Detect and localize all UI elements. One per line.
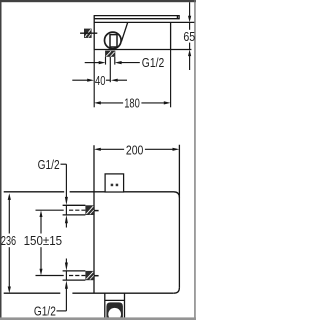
bottom view: leader shaft crossing top pipe [65, 205, 67, 215]
bottom view: top pipe stub inside body [94, 210, 99, 212]
bottom view: bottom pipe edges [63, 271, 86, 280]
bottom view: control square dot 2 [116, 184, 119, 187]
bottom view: top pipe hatched square [85, 205, 94, 215]
top view: bottom connection hatched rect [105, 51, 115, 57]
bottom view: spout outlet dark block [106, 302, 123, 317]
bottom view: spout inner ledge line [105, 299, 125, 301]
bottom view: leader shaft crossing bottom pipe [65, 271, 67, 280]
bottom view: body bottom edge (right of leader gap) [72, 292, 173, 294]
top view: body right edge [170, 22, 172, 49]
svg-text:G1/2: G1/2 [38, 157, 60, 172]
svg-text:236: 236 [1, 233, 16, 248]
bottom view: body bottom right rounded corner [174, 288, 180, 294]
bottom view: spout box left edge [104, 293, 106, 317]
svg-text:65: 65 [183, 29, 195, 44]
frame bottom border [0, 317, 196, 320]
frame right border [194, 0, 195, 320]
bottom view: body bottom edge / 236 extension (left of leader gap) [4, 292, 61, 294]
bottom view: body right edge [178, 145, 180, 288]
svg-text:G1/2: G1/2 [142, 55, 164, 70]
bottom view: spout outlet white bore [108, 308, 121, 318]
svg-text:40: 40 [95, 73, 106, 88]
top view: shelf lower edge [94, 18, 179, 20]
dimension 200 [94, 148, 179, 151]
top view: left wall connection hatched square [84, 29, 92, 38]
top view: bottom connection centerline extension [109, 57, 111, 82]
bottom view: bottom pipe dashed centerline [36, 275, 64, 277]
top view: shelf front edge [94, 15, 179, 17]
top view: body bottom edge with 65 extension [94, 49, 191, 51]
frame left border [0, 0, 2, 320]
top view: handle circle [105, 32, 122, 49]
dimension G1/2 (top view) [85, 61, 140, 64]
G1/2 top leader [61, 164, 68, 205]
bottom view: bottom pipe stub inside body [94, 275, 99, 277]
bottom view: control square dot 1 [111, 184, 114, 187]
dimension 180 [94, 101, 171, 104]
top view: handle inner rect [110, 35, 117, 47]
bottom view: spout box right edge [124, 293, 126, 317]
bottom view: wall line (left of leader gap) [4, 191, 64, 193]
dimension 180 extension left [93, 50, 95, 108]
top view: shelf inner end line [176, 16, 178, 19]
top view: wall line [94, 21, 194, 23]
bottom view: wall line (right of leader gap) with rounded corner into right edge [70, 192, 180, 198]
dimension 40 [72, 79, 127, 82]
bottom view: top pipe edges [63, 205, 86, 215]
bottom view: top pipe dashed centerline [36, 209, 64, 211]
top view: left connection axis line [80, 32, 97, 34]
svg-text:G1/2: G1/2 [34, 304, 56, 319]
bottom view: body left edge [93, 145, 95, 293]
svg-text:180: 180 [124, 96, 140, 111]
top view: bottom connection extension lines [106, 57, 115, 82]
G1/2 bottom leader [57, 280, 68, 311]
svg-text:150±15: 150±15 [24, 233, 63, 248]
top view: body left edge [93, 15, 95, 49]
top view: shelf right end cap [178, 15, 180, 19]
bottom view: bottom pipe upper arrow [65, 259, 68, 271]
frame top border [0, 0, 196, 2]
dimension 180 extension right [170, 50, 172, 108]
bottom view: control square [105, 174, 124, 192]
bottom view: top pipe lower arrow [65, 215, 68, 228]
dimension 236 [8, 193, 11, 293]
top view: chamfer diagonal [121, 22, 127, 41]
svg-text:200: 200 [126, 143, 143, 158]
bottom view: bottom pipe hatched square [85, 271, 94, 280]
dimension 150±15 [40, 210, 43, 275]
dimension 65 [188, 2, 191, 70]
